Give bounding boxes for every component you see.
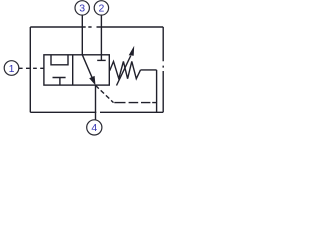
port 3 circle	[75, 1, 89, 15]
left position plug rectangle	[51, 55, 68, 65]
enclosure boundary top side	[30, 26, 163, 28]
pilot dashed horizontal to spring side	[114, 102, 156, 104]
spring	[110, 61, 141, 78]
enclosure boundary left side	[29, 27, 31, 112]
right position blocked port 2 stub bar	[97, 59, 106, 61]
enclosure boundary right side (dash-dot)	[162, 27, 164, 112]
left position blocked port T	[53, 78, 66, 86]
enclosure boundary bottom side	[30, 111, 163, 113]
port 4 line	[95, 85, 97, 119]
svg-text:2: 2	[98, 3, 104, 15]
port 2 line	[100, 15, 102, 60]
spring tail line	[141, 69, 157, 71]
port 3 line	[81, 15, 83, 55]
valve position divider	[72, 55, 74, 85]
flow arrowhead	[89, 76, 95, 86]
port 4 circle	[87, 120, 102, 135]
valve body envelope	[44, 55, 109, 85]
pilot dashed diagonal from port 4 junction	[96, 85, 114, 102]
right position flow diagonal	[82, 55, 92, 78]
port 1 circle	[4, 61, 19, 76]
adjustment arrow shaft	[117, 56, 131, 86]
adjustment arrowhead	[129, 46, 135, 56]
svg-text:3: 3	[79, 3, 85, 15]
svg-text:1: 1	[9, 63, 15, 75]
spring drain vertical	[156, 70, 158, 112]
port 2 circle	[94, 1, 108, 15]
port 1 pilot dashed line	[19, 67, 44, 69]
svg-text:4: 4	[91, 122, 97, 134]
